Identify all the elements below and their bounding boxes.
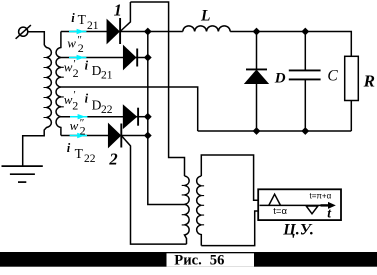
svg-text:i: i (71, 11, 75, 25)
wire (28, 32, 45, 46)
svg-text:C: C (327, 68, 338, 85)
transformer primary winding w1 (23, 45, 52, 166)
inductor L (183, 26, 230, 32)
wire anode rail to inductor (120, 31, 183, 33)
label i_D22 (85, 91, 113, 116)
svg-text:t=π+α: t=π+α (310, 192, 332, 201)
wire tap 4 to diode D22 (61, 116, 124, 118)
control unit box (258, 189, 341, 220)
svg-text:1: 1 (114, 0, 122, 19)
junction (253, 127, 261, 135)
wire tap 1 to thyristor 1 (61, 31, 108, 33)
junction (301, 127, 309, 135)
pulse transformer right winding (control side) (197, 176, 204, 246)
svg-text:Рис.: Рис. (174, 253, 201, 269)
capacitor C (289, 32, 321, 132)
caption bar (0, 252, 377, 267)
current arrow (69, 29, 86, 34)
label w2' (lower) (64, 89, 79, 113)
wire cathode bus (148, 32, 185, 205)
waveform pulse down (306, 206, 318, 214)
transformer secondary winding w2 (tapped) (56, 32, 64, 136)
junction (301, 28, 309, 36)
svg-text:2: 2 (73, 66, 79, 80)
current arrow (70, 114, 87, 119)
wire tap 5 to thyristor 2 (61, 135, 109, 137)
svg-text:2: 2 (80, 123, 86, 137)
thyristor 2 (109, 124, 148, 148)
label i_T21 (71, 11, 98, 32)
junction (144, 54, 152, 62)
AC phase source (16, 25, 31, 39)
junction (253, 28, 261, 36)
wire top rail (230, 32, 351, 57)
pulse transformer left winding (gate side) (182, 176, 189, 244)
label w2' (upper) (64, 58, 79, 80)
svg-text:T: T (75, 146, 84, 161)
waveform time arrow (321, 202, 336, 209)
current arrow (69, 55, 86, 60)
svg-text:22: 22 (84, 153, 96, 165)
svg-text:i: i (67, 141, 71, 155)
svg-text:56: 56 (210, 253, 225, 269)
svg-text:t=α: t=α (273, 206, 287, 217)
ground (2, 166, 43, 182)
diode D22 (124, 106, 148, 128)
waveform axis (260, 204, 334, 206)
freewheeling diode D (246, 32, 268, 132)
wire control unit output bottom (201, 211, 258, 246)
wire control unit output top (201, 155, 258, 200)
svg-text:i: i (85, 58, 89, 72)
svg-text:w: w (70, 118, 79, 133)
svg-text:L: L (200, 8, 210, 25)
label w2'' (bottom) (70, 117, 86, 138)
junction (144, 132, 152, 140)
svg-text:w: w (67, 35, 76, 50)
svg-text:21: 21 (87, 20, 99, 32)
svg-text:2: 2 (78, 41, 84, 55)
svg-text:21: 21 (101, 70, 113, 82)
label w2'' (top) (67, 34, 84, 55)
svg-text:R: R (363, 71, 375, 90)
junction (144, 113, 152, 121)
current arrow (70, 133, 87, 138)
wire tap 2 to diode D21 (61, 57, 124, 59)
svg-text:22: 22 (101, 104, 113, 116)
svg-text:2: 2 (72, 98, 78, 112)
wire bottom rail (198, 130, 352, 132)
waveform pulse up (269, 194, 281, 205)
wire gate of thyristor 2 to pulse transformer (121, 136, 186, 245)
svg-text:2: 2 (108, 150, 117, 169)
wire gate of thyristor 1 to pulse transformer (130, 2, 184, 176)
resistor R (345, 56, 359, 131)
diode D21 (124, 46, 148, 68)
label i_T22 (67, 141, 96, 165)
thyristor 1 (anode row) (107, 2, 130, 44)
svg-text:D: D (274, 70, 286, 86)
svg-text:T: T (78, 12, 87, 27)
svg-text:i: i (85, 91, 89, 105)
svg-text:w: w (64, 60, 73, 75)
svg-text:Ц.У.: Ц.У. (282, 221, 314, 238)
label i_D21 (85, 58, 113, 81)
wire center tap return (61, 87, 198, 131)
junction (144, 28, 152, 36)
